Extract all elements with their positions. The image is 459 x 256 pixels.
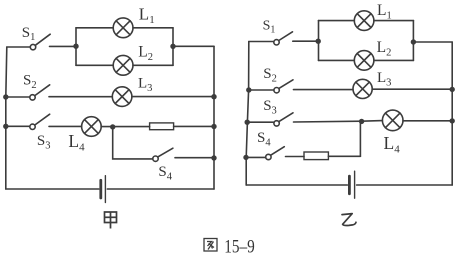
svg-text:S1: S1 (22, 25, 36, 43)
svg-text:S4: S4 (158, 164, 172, 182)
svg-text:L1: L1 (139, 4, 155, 25)
svg-text:S3: S3 (263, 98, 277, 116)
svg-text:S1: S1 (263, 18, 276, 35)
svg-text:L3: L3 (138, 76, 152, 94)
svg-text:L1: L1 (377, 2, 392, 21)
svg-text:L4: L4 (384, 133, 401, 155)
svg-text:S3: S3 (37, 133, 51, 151)
svg-text:L4: L4 (68, 131, 85, 153)
svg-text:15–9: 15–9 (224, 238, 255, 256)
svg-text:S2: S2 (263, 66, 277, 84)
svg-text:S2: S2 (23, 73, 37, 91)
svg-text:L2: L2 (377, 39, 392, 58)
svg-text:S4: S4 (257, 130, 271, 148)
svg-text:L3: L3 (377, 70, 391, 88)
svg-text:L2: L2 (138, 44, 153, 63)
